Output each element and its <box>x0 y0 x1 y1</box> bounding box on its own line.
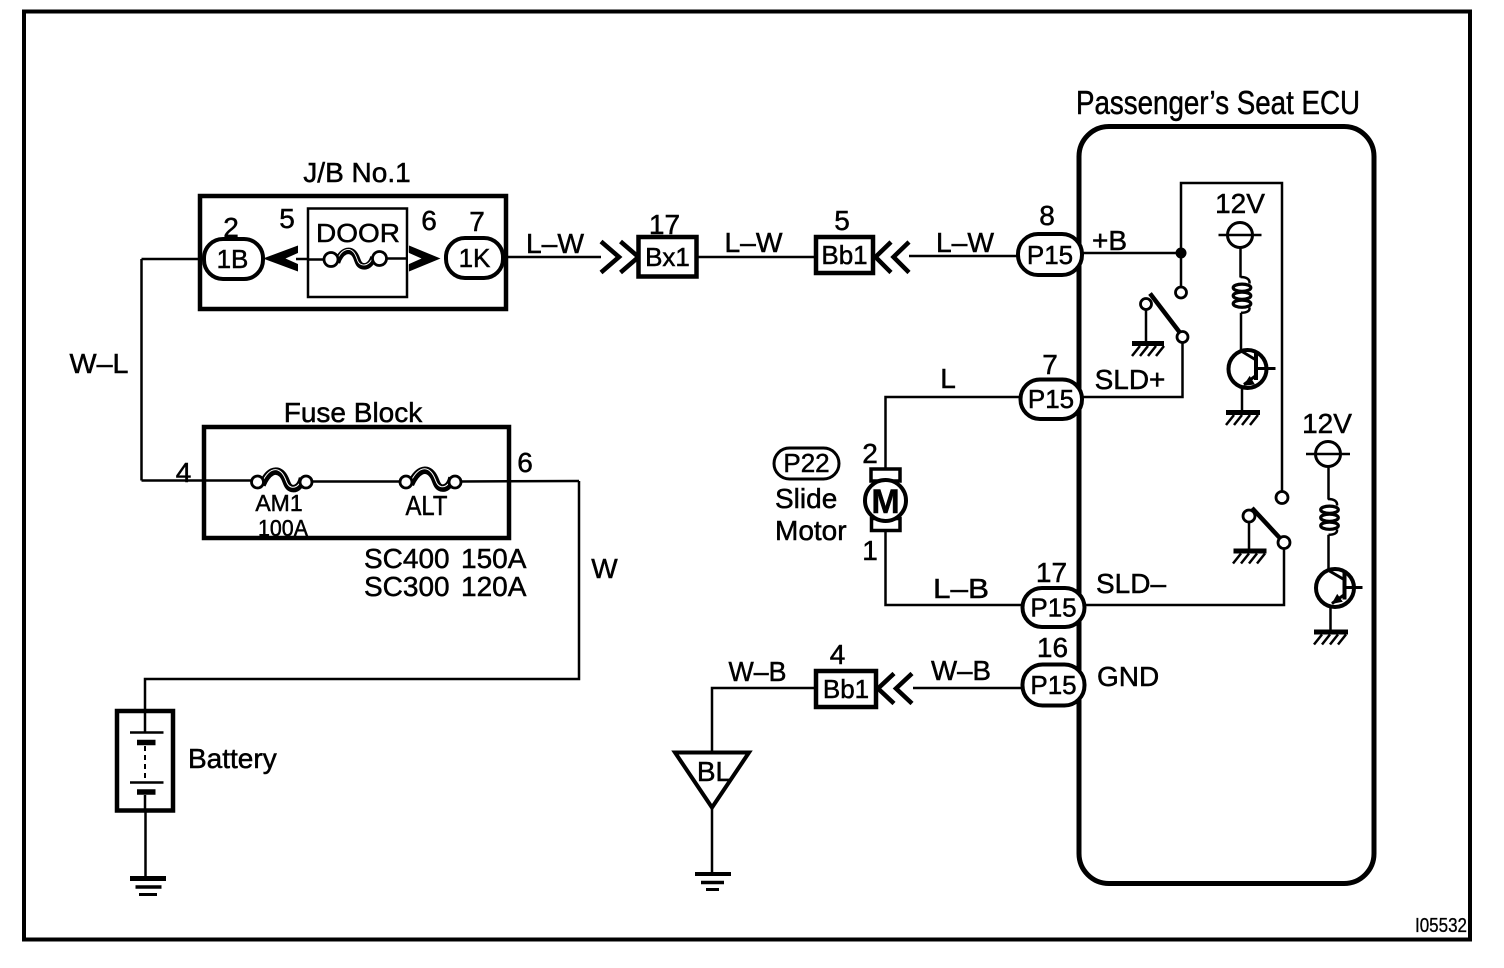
svg-text:Motor: Motor <box>775 515 847 546</box>
coil L1 <box>1241 277 1250 284</box>
wire 1B to W-L riser <box>142 258 207 261</box>
wire 1K to Bx1 <box>503 256 601 259</box>
svg-text:7: 7 <box>1042 349 1058 380</box>
connector chevrons to Bx1 <box>601 242 619 273</box>
wire S1 to SLD+ <box>1053 343 1183 398</box>
svg-text:1B: 1B <box>217 244 249 274</box>
wire Q2 emitter to ground <box>1329 606 1332 631</box>
arrow out to 1K <box>409 246 441 272</box>
connector 1B <box>204 239 263 279</box>
source circle V2 <box>1316 442 1341 467</box>
switch S1 arm <box>1150 294 1183 337</box>
svg-text:6: 6 <box>517 447 533 478</box>
svg-text:W: W <box>591 553 618 584</box>
svg-text:120A: 120A <box>461 571 527 602</box>
svg-text:12V: 12V <box>1215 188 1265 219</box>
svg-text:L–B: L–B <box>933 573 989 604</box>
ground G1 <box>1132 341 1164 346</box>
svg-text:P15: P15 <box>1028 384 1074 414</box>
svg-text:100A: 100A <box>258 515 309 541</box>
fuse AM1 <box>262 471 303 489</box>
connector P15 pin 8 <box>1018 234 1082 275</box>
svg-text:P15: P15 <box>1027 240 1073 270</box>
svg-text:DOOR: DOOR <box>316 218 400 248</box>
svg-text:M: M <box>871 483 899 521</box>
svg-text:2: 2 <box>862 438 878 469</box>
splice BL <box>675 753 749 808</box>
svg-text:P15: P15 <box>1030 670 1076 700</box>
wire SLD- to switch S2 <box>1053 549 1284 606</box>
svg-text:Slide: Slide <box>775 483 837 514</box>
wire BL to ground <box>711 806 714 873</box>
svg-text:W–B: W–B <box>931 655 991 686</box>
svg-text:J/B No.1: J/B No.1 <box>303 157 410 188</box>
svg-text:4: 4 <box>830 639 846 670</box>
svg-text:SC300: SC300 <box>364 571 450 602</box>
wire Bx1 to Bb1 <box>697 256 817 259</box>
svg-text:W–L: W–L <box>70 348 129 379</box>
svg-text:8: 8 <box>1039 200 1055 231</box>
connector Bb1 <box>816 237 873 273</box>
svg-text:+B: +B <box>1092 225 1127 256</box>
wire fuse block to battery <box>145 481 579 711</box>
transistor Q2 <box>1316 569 1354 607</box>
svg-text:P15: P15 <box>1030 593 1076 623</box>
svg-text:150A: 150A <box>461 543 527 574</box>
ground G1 stub <box>1145 310 1148 342</box>
svg-text:7: 7 <box>469 206 485 237</box>
ground G2 <box>1226 410 1260 415</box>
svg-text:1: 1 <box>862 535 878 566</box>
svg-text:L–W: L–W <box>936 227 995 258</box>
svg-text:SLD+: SLD+ <box>1095 364 1166 395</box>
node junction dot <box>1176 248 1187 259</box>
wire Bb1 to BL splice <box>712 688 816 753</box>
connector chevrons at Bb1 lower <box>878 674 894 704</box>
wire W-L vertical <box>140 259 143 481</box>
svg-text:L–W: L–W <box>725 227 784 258</box>
wire Q1 emitter to ground <box>1241 387 1244 411</box>
ECU box <box>1079 127 1374 884</box>
svg-text:W–B: W–B <box>729 656 787 687</box>
ground G3 stub <box>1248 522 1251 549</box>
svg-text:4: 4 <box>176 457 192 488</box>
svg-text:6: 6 <box>421 205 437 236</box>
svg-text:P22: P22 <box>783 448 829 478</box>
svg-text:Passenger’s Seat ECU: Passenger’s Seat ECU <box>1076 84 1360 121</box>
wire through fuse block <box>142 479 254 482</box>
svg-text:AM1: AM1 <box>255 490 302 516</box>
wire L from motor to P15 pin 7 <box>886 397 1054 469</box>
fuse block box <box>204 427 509 538</box>
switch S1 contact <box>1176 287 1187 298</box>
source circle V1 <box>1228 223 1253 248</box>
svg-text:16: 16 <box>1037 632 1068 663</box>
connector P15 pin 17 <box>1023 588 1085 627</box>
junction box J/B No.1 <box>200 196 506 309</box>
svg-text:GND: GND <box>1097 661 1159 692</box>
connector Bb1 lower <box>816 671 876 707</box>
fuse ALT <box>411 470 453 488</box>
svg-text:ALT: ALT <box>406 490 448 521</box>
svg-text:Bb1: Bb1 <box>823 674 869 704</box>
wire +B to junction <box>1050 252 1181 255</box>
switch S2 arm <box>1252 508 1284 543</box>
ground G4 <box>1314 630 1348 635</box>
wire battery to ground <box>144 811 147 878</box>
connector P15 pin 7 <box>1021 380 1083 420</box>
svg-text:5: 5 <box>834 205 850 236</box>
transistor Q1 <box>1229 350 1267 388</box>
svg-text:17: 17 <box>1036 557 1067 588</box>
wire V1 to coil L1 <box>1239 248 1242 278</box>
ground G6 <box>130 876 166 881</box>
svg-text:Battery: Battery <box>188 743 277 774</box>
wire coil L2 to Q2 <box>1327 535 1330 571</box>
connector Bx1 <box>639 237 697 277</box>
motor M <box>871 469 900 481</box>
connector 1K <box>446 238 503 278</box>
wire coil L1 to Q1 <box>1240 313 1243 352</box>
connector P15 pin 16 <box>1023 665 1085 706</box>
svg-text:L: L <box>940 363 956 394</box>
wire motor to P15 pin 17 <box>886 531 1054 606</box>
svg-text:5: 5 <box>279 203 295 234</box>
fusible link in DOOR box <box>308 258 326 261</box>
wire arrow to DOOR box <box>296 258 310 261</box>
wire V2 to coil L2 <box>1327 467 1330 500</box>
coil L2 <box>1328 499 1337 506</box>
svg-text:Fuse Block: Fuse Block <box>284 397 423 428</box>
wire Bb1 to P15 pin 8 <box>909 255 1050 258</box>
wire internal rail <box>1181 183 1282 492</box>
svg-text:I05532: I05532 <box>1415 915 1467 937</box>
svg-text:Bb1: Bb1 <box>821 240 867 270</box>
svg-text:12V: 12V <box>1302 408 1352 439</box>
svg-text:BL: BL <box>697 756 731 787</box>
connector P22 <box>774 448 839 479</box>
switch S2 contact <box>1276 492 1288 504</box>
DOOR fuse box <box>308 209 407 298</box>
svg-text:L–W: L–W <box>526 228 585 259</box>
svg-text:SLD–: SLD– <box>1096 568 1166 599</box>
ground G3 <box>1234 549 1267 554</box>
svg-text:SC400: SC400 <box>364 543 450 574</box>
ground G5 <box>695 872 731 876</box>
svg-text:Bx1: Bx1 <box>645 242 690 272</box>
arrow into 1B <box>263 246 298 272</box>
battery <box>117 711 173 811</box>
connector chevrons at Bb1 <box>876 242 892 273</box>
wire GND to chevrons <box>913 687 1053 690</box>
svg-text:1K: 1K <box>459 243 491 273</box>
